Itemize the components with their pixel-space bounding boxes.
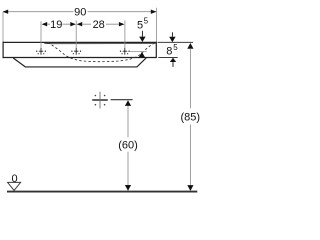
washbasin slab outline [3,42,157,59]
tap hole leader line [128,51,147,53]
dimension (85) line with arrows [187,43,193,49]
dimension 90 extension line right [156,8,158,42]
dimension 8.5 top line [158,41,193,43]
dimension 5.5 down arrow [141,31,143,37]
drain position cross [92,92,108,109]
dimension 19 arrow right [70,22,76,26]
dimension 90 line [3,11,156,13]
svg-text:(60): (60) [118,139,138,151]
svg-text:0: 0 [12,173,18,185]
dimension 28 arrow left [77,22,83,26]
hidden bowl profile (dashed) [48,42,155,61]
tap hole cross 1 [36,48,46,55]
svg-text:5: 5 [137,19,143,31]
datum level triangle [8,182,21,190]
dimension 19 arrow left [42,22,48,26]
svg-text:8: 8 [166,46,172,58]
dimension 5.5 up arrow [139,52,145,58]
inner rim line [44,42,156,45]
dimension 8.5 bottom line [158,57,177,59]
svg-text:19: 19 [50,19,62,31]
svg-text:5: 5 [144,17,149,26]
dimension 28 arrow right [119,22,125,26]
dimension (60) line with arrows [125,100,131,106]
dimension 90 extension line left [2,12,4,42]
svg-text:(85): (85) [181,111,200,123]
svg-text:90: 90 [74,6,86,18]
dimension 19 line [47,23,70,25]
dimension 90 arrow left [3,10,9,14]
dimension 90 arrow right [151,10,157,14]
dimension 19 extension line [40,21,42,47]
svg-text:28: 28 [93,19,105,31]
svg-text:5: 5 [173,43,178,52]
floor line [7,191,197,193]
dimension 28 line [82,23,119,25]
tap hole cross 2 [71,48,81,55]
dimension 8.5 down arrow [171,32,173,37]
dimension 28 extension lines [76,20,125,47]
drain height reference line [111,99,133,101]
dimension 8.5 up arrow [170,58,176,62]
apron (front skirt) [13,58,146,67]
tap hole cross 3 [120,48,130,55]
